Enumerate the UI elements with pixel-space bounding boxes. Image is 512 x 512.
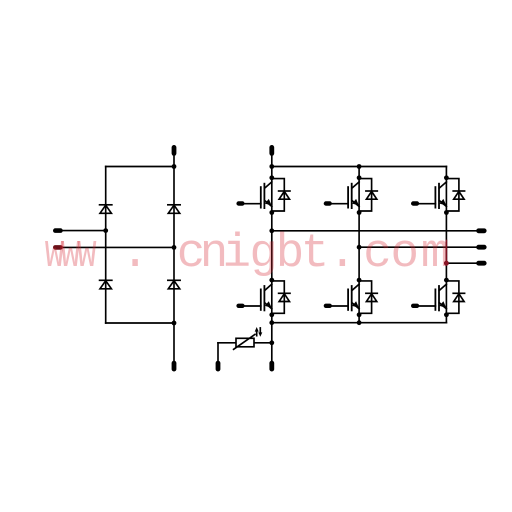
terminal phase V [476, 245, 486, 250]
gate terminal G3 [324, 201, 332, 205]
junction phase V at leg 2 [357, 245, 362, 250]
wire P bus (top) [272, 166, 447, 168]
junction P bus leg 1 [269, 164, 274, 169]
terminal phase W [476, 261, 486, 266]
wire phase W output [446, 262, 476, 264]
junction phase W dot tinted dark red by watermark [444, 261, 449, 266]
terminal P (DC+) input [269, 145, 274, 156]
gate terminal G4 [324, 304, 332, 308]
junction phase W at leg 3 [444, 261, 449, 266]
wire rectifier right branch vertical [173, 156, 175, 362]
rectifier diode upper-right [168, 205, 180, 214]
junction thermistor node on leg 1 [269, 340, 274, 345]
wire inverter leg 2 vertical [358, 167, 360, 323]
wire inverter leg 1 vertical [271, 156, 273, 362]
wire thermistor to N bus leg [218, 342, 272, 344]
wire rectifier bottom (DC-) link [106, 322, 174, 324]
gate terminal G1 [236, 201, 244, 205]
gate terminal G6 [411, 304, 419, 308]
IGBT Q5 with freewheel diode D5 [419, 175, 464, 214]
wire leg 3 segment tinted dark red by watermark [445, 241, 447, 265]
terminal N (DC-) output [269, 361, 274, 372]
terminal rectifier DC+ output [172, 145, 177, 156]
IGBT Q2 with freewheel diode D2 [245, 278, 290, 318]
thermistor arrow down [258, 328, 262, 337]
terminal thermistor [216, 361, 221, 372]
terminal AC input 1 [53, 228, 63, 233]
wire rectifier top (DC+) link [106, 166, 174, 168]
wire phase U output [272, 230, 477, 232]
wire AC input 2 [63, 246, 174, 248]
junction N bus leg 2 [357, 320, 362, 325]
IGBT Q6 with freewheel diode D6 [419, 278, 464, 318]
wire AC input 1 [63, 230, 106, 232]
gate terminal G2 [236, 304, 244, 308]
IGBT Q1 with freewheel diode D1 [245, 175, 290, 214]
thermistor arrow up [255, 327, 259, 336]
rectifier diode lower-right [168, 280, 180, 289]
junction rectifier top node [172, 164, 177, 169]
terminal AC input 2 (tinted by watermark) [53, 245, 63, 250]
IGBT Q3 with freewheel diode D3 [332, 175, 377, 214]
wire rectifier left branch vertical [105, 167, 107, 324]
thermistor NTC body [236, 338, 254, 347]
rectifier diode lower-left [100, 280, 112, 289]
wire thermistor left lead down [217, 343, 219, 361]
gate terminal G5 [411, 201, 419, 205]
IGBT Q4 with freewheel diode D4 [332, 278, 377, 318]
junction AC input 2 node [172, 245, 177, 250]
svg-text:www: www [45, 227, 97, 281]
junction P bus leg 2 [357, 164, 362, 169]
terminal rectifier DC- output [172, 361, 177, 372]
wire phase V output [359, 246, 476, 248]
junction AC input 1 node [103, 228, 108, 233]
junction rectifier bottom node [172, 321, 177, 326]
terminal phase U [476, 228, 486, 233]
thermistor diagonal stroke [234, 334, 255, 349]
junction phase U at leg 1 [269, 228, 274, 233]
rectifier diode upper-left [100, 205, 112, 214]
wire inverter leg 3 vertical [445, 167, 447, 323]
wire N bus (bottom) [272, 322, 447, 324]
junction N bus leg 1 [269, 320, 274, 325]
